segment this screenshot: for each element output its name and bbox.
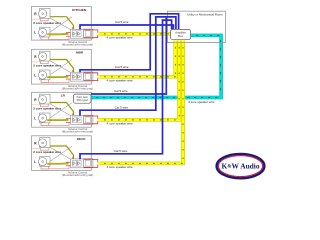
svg-text:(Mounted at/in entry pad): (Mounted at/in entry pad)	[62, 43, 93, 47]
volume control MBR	[71, 72, 84, 81]
yellow 4-core speaker cable DECK	[98, 41, 183, 164]
room box border over volume control	[90, 29, 92, 38]
svg-text:4 core speaker wire: 4 core speaker wire	[188, 100, 215, 104]
K&amp;W Audio logo	[217, 154, 265, 178]
red wire into volume control	[66, 118, 71, 120]
wire 2-core from speaker L	[47, 163, 68, 165]
yellow 4-core speaker cable MBR	[98, 41, 175, 77]
svg-text:2 core speaker wire: 2 core speaker wire	[33, 107, 61, 111]
red wire volume control to speaker cable	[84, 30, 98, 33]
room box KITCHEN	[32, 7, 92, 41]
svg-text:4 core speaker wire: 4 core speaker wire	[107, 122, 134, 126]
svg-text:Cat 5 wire: Cat 5 wire	[115, 105, 129, 109]
wire 2-core from speaker L	[47, 119, 68, 121]
red wire volume control to speaker cable	[84, 73, 98, 76]
svg-text:Utility or Mechanical Room: Utility or Mechanical Room	[187, 13, 223, 17]
speaker L (LR)	[40, 113, 51, 123]
svg-text:DECK: DECK	[77, 137, 87, 141]
amplifier box U1	[171, 29, 191, 39]
volume control KITCHEN	[71, 29, 84, 38]
svg-text:L: L	[34, 117, 36, 121]
svg-text:L: L	[34, 74, 36, 78]
yellow 4-core speaker cable kitchen	[98, 32, 170, 35]
red wire into volume control	[66, 161, 71, 163]
speaker L (KITCHEN)	[40, 27, 51, 37]
room box border over volume control	[90, 115, 92, 124]
svg-text:4 core speaker wire: 4 core speaker wire	[107, 36, 134, 40]
red wire below speaker L	[41, 123, 49, 126]
red wire below speaker L	[41, 37, 49, 40]
red wire below speaker L	[41, 166, 49, 169]
blue Cat 5 cable DECK	[80, 20, 172, 159]
svg-text:KITCHEN: KITCHEN	[72, 8, 87, 12]
wire grey diagonal L-up	[50, 60, 72, 75]
svg-text:(Mounted at/in entry pad): (Mounted at/in entry pad)	[62, 173, 93, 177]
wire grey diagonal L-up	[50, 103, 72, 118]
room box border over volume control	[90, 72, 92, 81]
red wire below speaker R	[40, 61, 48, 64]
room box LR	[32, 92, 92, 127]
red wire into volume control	[66, 32, 71, 34]
wire 2-core from speaker R	[50, 146, 74, 159]
speaker R (LR)	[40, 94, 51, 104]
wire grey diagonal L-up	[50, 146, 72, 161]
patio jack / IR box in LR	[74, 94, 92, 103]
room box border over volume control	[90, 159, 92, 168]
svg-text:4 core speaker wire: 4 core speaker wire	[107, 165, 134, 169]
svg-text:Cat 5 wire: Cat 5 wire	[115, 65, 129, 69]
speaker R (DECK)	[40, 138, 51, 148]
svg-text:L: L	[34, 160, 36, 164]
svg-text:2 core speaker wire: 2 core speaker wire	[33, 21, 61, 25]
red wire L speaker to volume control	[49, 37, 69, 39]
utility room box	[167, 11, 225, 42]
wire 2-core from speaker R	[50, 17, 74, 30]
svg-text:(Mounted at/in entry pad): (Mounted at/in entry pad)	[62, 130, 93, 134]
speaker L (MBR)	[40, 70, 51, 80]
volume control LR	[71, 115, 84, 124]
speaker L (DECK)	[40, 157, 51, 167]
svg-text:(Mounted at/in entry pad): (Mounted at/in entry pad)	[62, 87, 93, 91]
svg-text:Cat 5 wire: Cat 5 wire	[114, 89, 128, 93]
utility room box bottom edge over cables	[167, 42, 225, 44]
red wire below speaker L	[41, 80, 49, 83]
wire grey diagonal R-VC	[50, 104, 74, 118]
red wire volume control to speaker cable	[84, 160, 98, 163]
wire 2-core from speaker R	[50, 60, 74, 73]
blue Cat 5 cable kitchen	[80, 25, 173, 30]
svg-text:Box: Box	[178, 34, 183, 38]
svg-text:4 core speaker wire: 4 core speaker wire	[107, 79, 134, 83]
red wire volume control to speaker cable	[84, 116, 98, 119]
svg-text:Cat 5 wire: Cat 5 wire	[114, 149, 128, 153]
wire 2-core from speaker R	[50, 103, 74, 116]
wire grey diagonal R-VC	[50, 61, 74, 75]
svg-text:2 core speaker wire: 2 core speaker wire	[33, 150, 61, 154]
svg-text:K&W Audio: K&W Audio	[221, 162, 259, 171]
speaker R (MBR)	[40, 51, 51, 61]
cable print marks on cyan cable	[196, 35, 198, 36]
red wire below speaker R	[40, 148, 48, 151]
cyan 4-core speaker cable amplifier to patio jack	[91, 35, 221, 97]
room box MBR	[32, 49, 92, 84]
wire 2-core from speaker L	[47, 76, 68, 78]
wire grey diagonal R-VC	[50, 147, 74, 161]
svg-text:L: L	[34, 31, 36, 35]
wire grey diagonal L-up	[50, 17, 72, 32]
svg-text:IR/Keypad: IR/Keypad	[77, 99, 89, 102]
red wire L speaker to volume control	[49, 167, 69, 169]
volume control DECK	[71, 159, 84, 168]
blue Cat 5 cable MBR	[80, 14, 179, 73]
red wire into volume control	[66, 75, 71, 77]
svg-text:MBR: MBR	[76, 51, 84, 55]
svg-text:Cat 5 wire: Cat 5 wire	[115, 20, 129, 24]
blue Cat 5 cable LR volume control	[80, 17, 176, 116]
red wire below speaker R	[40, 104, 48, 107]
room box DECK	[32, 136, 92, 171]
red wire below speaker R	[40, 18, 48, 21]
blue Cat 5 cable LR patio jack	[91, 17, 166, 94]
wire grey diagonal R-VC	[50, 18, 74, 32]
yellow 4-core speaker cable LR	[98, 41, 179, 120]
red wire L speaker to volume control	[49, 80, 69, 82]
svg-text:2 core speaker wire: 2 core speaker wire	[33, 64, 61, 68]
red wire L speaker to volume control	[49, 123, 69, 125]
wire 2-core from speaker L	[47, 33, 68, 36]
speaker R (KITCHEN)	[40, 8, 51, 18]
